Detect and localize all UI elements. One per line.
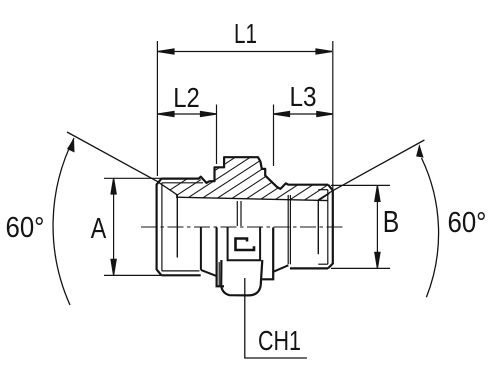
center slot verticals xyxy=(236,201,238,226)
svg-text:60°: 60° xyxy=(6,212,45,244)
svg-text:L2: L2 xyxy=(173,82,200,113)
svg-text:60°: 60° xyxy=(448,207,487,239)
svg-text:L3: L3 xyxy=(290,81,317,112)
extension line L3 left xyxy=(273,105,275,167)
right cone base edge xyxy=(317,200,319,254)
cone line 60 right xyxy=(318,140,424,200)
right thread bottom edge xyxy=(290,267,328,269)
hex chamfer base line xyxy=(176,197,328,200)
dimension line L2 xyxy=(158,111,217,116)
logo box xyxy=(228,228,261,261)
right thread chamfer runout xyxy=(327,190,329,265)
hex bottom collar right xyxy=(262,228,273,280)
hex bottom collar left xyxy=(217,228,224,287)
extension line L1 right xyxy=(332,41,334,225)
arrowhead arc right xyxy=(416,144,424,158)
leader CH1 xyxy=(245,278,307,358)
hex bottom barrel xyxy=(221,260,262,295)
fitting bottom profile left thread xyxy=(162,274,201,276)
centerline axis xyxy=(141,226,345,228)
hex chamfer hatch xyxy=(133,149,428,214)
fitting outline top profile xyxy=(162,157,329,189)
dimension line A xyxy=(111,178,116,275)
logo glyph xyxy=(236,239,255,251)
svg-text:B: B xyxy=(383,204,400,239)
extension line B top xyxy=(331,184,390,186)
left thread root bottom xyxy=(162,270,200,272)
dimension line L3 xyxy=(274,111,333,116)
left thread chamfer runout xyxy=(161,183,163,271)
shank bottom left chamfer xyxy=(201,270,217,276)
extension line L1 left xyxy=(156,41,158,176)
cone line 60 left xyxy=(67,132,177,195)
hex bottom barrel inner line xyxy=(218,262,220,286)
extension line B bottom xyxy=(331,267,390,269)
left cone base edge xyxy=(176,195,178,258)
angle arc right xyxy=(422,158,439,297)
svg-text:A: A xyxy=(91,213,107,245)
extension line A top xyxy=(104,177,162,179)
right thread root bottom xyxy=(318,263,328,265)
dimension line B xyxy=(375,185,380,268)
left port bore edge xyxy=(200,228,202,270)
left tip face xyxy=(157,179,162,276)
arrowhead arc left xyxy=(67,138,75,153)
angle arc left xyxy=(53,138,74,305)
extension line L2 right xyxy=(216,105,218,165)
svg-text:CH1: CH1 xyxy=(258,325,301,356)
right thread root top xyxy=(318,189,328,191)
left thread root top xyxy=(162,182,203,184)
dimension line L1 xyxy=(158,49,332,54)
hex bottom right chamfer xyxy=(273,265,288,272)
right tip face xyxy=(328,185,333,269)
right thread runout verticals xyxy=(287,195,289,264)
extension line A bottom xyxy=(104,274,162,276)
svg-text:L1: L1 xyxy=(234,18,257,49)
